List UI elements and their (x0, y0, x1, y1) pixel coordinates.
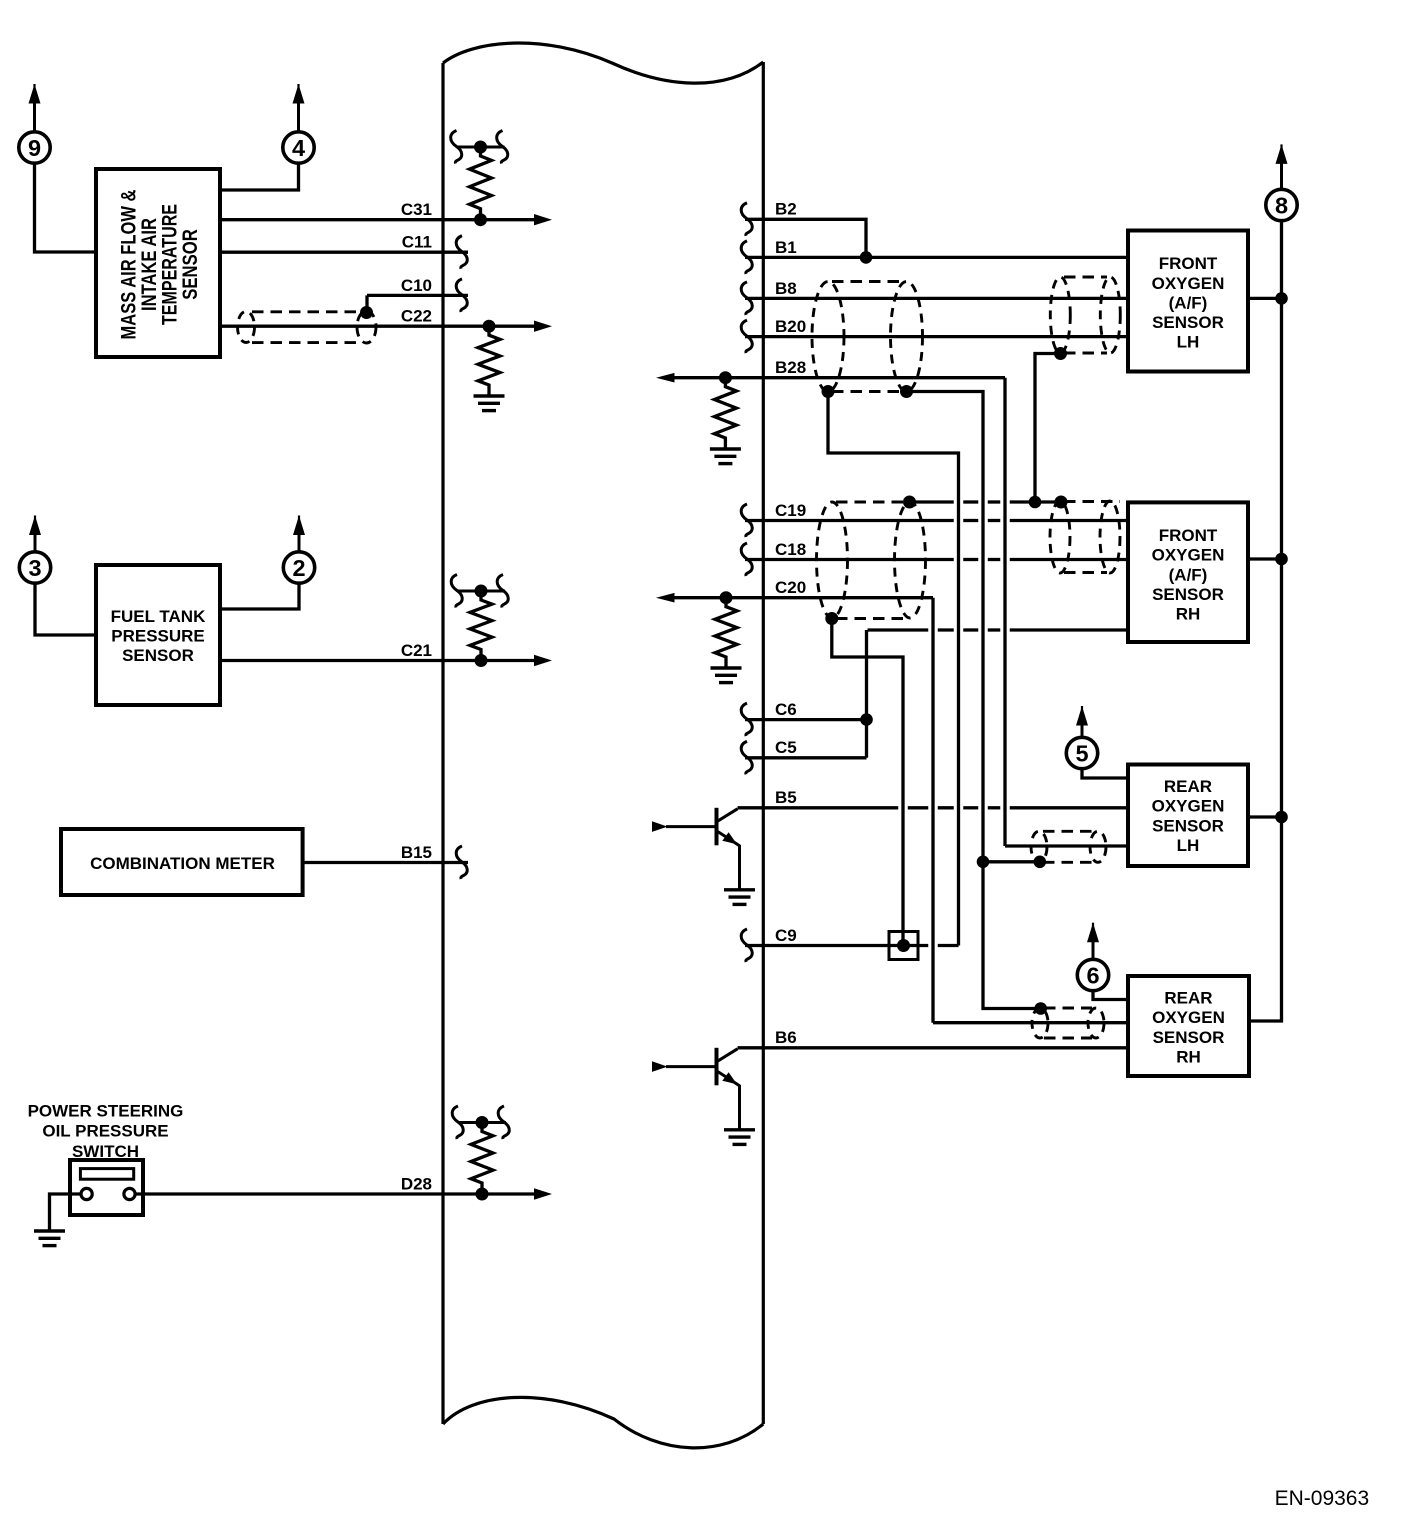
svg-text:8: 8 (1275, 193, 1288, 219)
svg-text:B2: B2 (775, 200, 797, 219)
svg-text:LH: LH (1177, 333, 1200, 352)
svg-text:B20: B20 (775, 317, 806, 336)
svg-text:OIL PRESSURE: OIL PRESSURE (42, 1122, 168, 1141)
svg-text:B15: B15 (401, 843, 432, 862)
svg-text:C5: C5 (775, 738, 797, 757)
svg-text:SWITCH: SWITCH (72, 1142, 139, 1161)
svg-text:C31: C31 (401, 200, 432, 219)
svg-text:LH: LH (1177, 836, 1200, 855)
svg-text:SENSOR: SENSOR (1153, 1028, 1225, 1047)
svg-text:OXYGEN: OXYGEN (1152, 797, 1225, 816)
svg-text:SENSOR: SENSOR (179, 229, 202, 300)
svg-text:FRONT: FRONT (1159, 526, 1218, 545)
svg-text:B1: B1 (775, 238, 797, 257)
svg-text:COMBINATION METER: COMBINATION METER (90, 854, 275, 873)
svg-text:C11: C11 (402, 233, 432, 252)
svg-text:RH: RH (1176, 1047, 1201, 1066)
svg-text:(A/F): (A/F) (1169, 293, 1208, 312)
svg-text:C9: C9 (775, 926, 797, 945)
svg-text:OXYGEN: OXYGEN (1152, 546, 1225, 565)
svg-text:OXYGEN: OXYGEN (1152, 1008, 1225, 1027)
svg-text:SENSOR: SENSOR (1152, 313, 1224, 332)
svg-text:B8: B8 (775, 279, 797, 298)
svg-text:4: 4 (292, 135, 305, 161)
svg-text:5: 5 (1075, 741, 1088, 767)
svg-text:C21: C21 (401, 641, 432, 660)
svg-text:B28: B28 (775, 358, 806, 377)
svg-text:C19: C19 (775, 501, 806, 520)
svg-text:3: 3 (28, 555, 41, 581)
svg-text:REAR: REAR (1164, 989, 1212, 1008)
svg-text:OXYGEN: OXYGEN (1152, 274, 1225, 293)
svg-text:B6: B6 (775, 1028, 797, 1047)
svg-text:PRESSURE: PRESSURE (111, 627, 205, 646)
svg-text:9: 9 (28, 135, 41, 161)
svg-text:POWER STEERING: POWER STEERING (28, 1101, 184, 1120)
svg-text:(A/F): (A/F) (1169, 565, 1208, 584)
svg-text:FUEL TANK: FUEL TANK (111, 607, 206, 626)
svg-text:6: 6 (1086, 963, 1099, 989)
svg-text:D28: D28 (401, 1174, 432, 1193)
svg-text:C22: C22 (401, 307, 432, 326)
svg-text:EN-09363: EN-09363 (1275, 1487, 1370, 1510)
svg-text:C18: C18 (775, 540, 806, 559)
svg-text:RH: RH (1176, 605, 1201, 624)
svg-text:B5: B5 (775, 788, 797, 807)
svg-text:C6: C6 (775, 700, 797, 719)
svg-text:SENSOR: SENSOR (1152, 816, 1224, 835)
svg-text:2: 2 (292, 555, 305, 581)
svg-text:C20: C20 (775, 578, 806, 597)
svg-text:REAR: REAR (1164, 777, 1212, 796)
svg-text:SENSOR: SENSOR (122, 646, 194, 665)
svg-text:C10: C10 (401, 276, 432, 295)
svg-text:SENSOR: SENSOR (1152, 585, 1224, 604)
svg-text:FRONT: FRONT (1159, 254, 1218, 273)
